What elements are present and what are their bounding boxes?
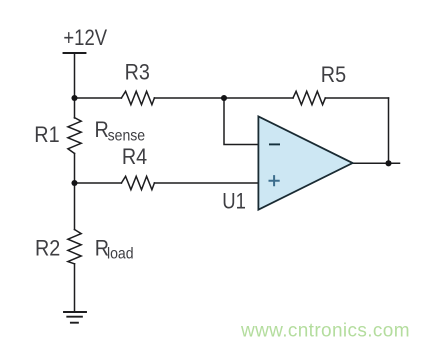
svg-text:U1: U1 (222, 190, 246, 214)
svg-text:R5: R5 (321, 63, 346, 87)
svg-text:+12V: +12V (63, 27, 107, 51)
svg-text:R2: R2 (35, 236, 60, 260)
svg-text:R4: R4 (122, 145, 148, 169)
svg-text:www.cntronics.com: www.cntronics.com (240, 321, 410, 342)
svg-text:R1: R1 (34, 123, 59, 147)
svg-text:R: R (95, 118, 109, 142)
svg-text:load: load (107, 246, 134, 263)
svg-text:R3: R3 (125, 61, 150, 85)
svg-text:sense: sense (108, 128, 146, 145)
